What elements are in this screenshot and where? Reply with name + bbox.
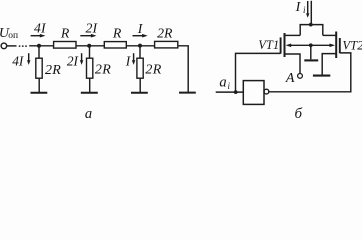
label R1 bbox=[60, 26, 70, 41]
svg-text:2R: 2R bbox=[157, 26, 173, 41]
current arrow 2I (top) bbox=[86, 21, 99, 36]
label Uop (reference voltage) bbox=[0, 26, 18, 41]
caption a bbox=[85, 106, 92, 122]
svg-text:a: a bbox=[219, 75, 226, 91]
wire to right corner bbox=[178, 46, 188, 93]
junction a_i bbox=[234, 90, 238, 94]
inverter (NOT gate) box bbox=[243, 81, 264, 105]
svg-text:A: A bbox=[285, 71, 295, 86]
substrate wire down bbox=[310, 45, 312, 59]
VT1 gate bar bbox=[280, 37, 282, 53]
VT1 source stub down to node A bbox=[285, 54, 301, 74]
svg-text:VT2: VT2 bbox=[343, 39, 362, 53]
svg-text:I: I bbox=[137, 21, 144, 36]
ground (branch 1) bbox=[31, 92, 48, 94]
label 2R (branch 3) bbox=[145, 63, 161, 78]
input terminal circle bbox=[1, 43, 7, 49]
transistor VT2 bbox=[343, 39, 362, 53]
ground (substrate) bbox=[304, 59, 318, 61]
svg-text:оп: оп bbox=[8, 31, 18, 41]
VT2 source stub to ground bbox=[322, 54, 336, 75]
current arrow Ii (down) bbox=[307, 1, 309, 14]
VT1 channel bbox=[284, 33, 286, 57]
wire node1-node2 bbox=[76, 45, 104, 47]
resistor R2 (horizontal) bbox=[104, 42, 126, 48]
VT1 gate wire to input bbox=[236, 53, 281, 92]
VT1 drain stub bbox=[285, 34, 301, 36]
svg-text:R: R bbox=[112, 26, 122, 41]
current arrow I (branch 3, down) bbox=[125, 53, 131, 68]
svg-text:R: R bbox=[60, 26, 70, 41]
label 2R (branch 2) bbox=[95, 63, 111, 78]
svg-text:2R: 2R bbox=[45, 63, 61, 78]
wire to node 1 bbox=[29, 45, 53, 47]
svg-text:4I: 4I bbox=[12, 53, 24, 68]
svg-text:I: I bbox=[125, 53, 131, 68]
ground (right end) bbox=[179, 92, 196, 94]
svg-text:2R: 2R bbox=[95, 63, 111, 78]
resistor 2R (branch 2, vertical) bbox=[87, 58, 93, 78]
label 2R (branch 1) bbox=[45, 63, 61, 78]
wire a_i input bbox=[216, 91, 244, 93]
svg-text:2R: 2R bbox=[145, 63, 161, 78]
inverter output bubble bbox=[264, 89, 269, 94]
node A terminal circle bbox=[298, 74, 303, 79]
wire to ground (branch 1) bbox=[38, 78, 40, 92]
resistor R1 (horizontal) bbox=[54, 42, 76, 49]
current arrow 2I (branch 2, down) bbox=[67, 53, 79, 68]
svg-text:б: б bbox=[295, 106, 303, 121]
label A bbox=[285, 71, 295, 86]
ground (VT2 source) bbox=[313, 75, 330, 77]
ground (branch 3) bbox=[131, 92, 148, 94]
label 2R (top right) bbox=[157, 26, 173, 41]
wire to ground (branch 3) bbox=[139, 78, 141, 92]
transistor VT1 bbox=[258, 38, 279, 52]
wire inverter output to VT2 gate bbox=[269, 53, 351, 92]
node 1 junction bbox=[37, 44, 41, 48]
svg-text:4I: 4I bbox=[34, 21, 47, 36]
dots (omitted network) bbox=[19, 45, 27, 47]
caption b bbox=[295, 106, 303, 122]
resistor 2R (branch 3, vertical) bbox=[137, 58, 143, 78]
label Ii (current source) bbox=[295, 0, 306, 15]
wire node2-node3 bbox=[126, 45, 154, 47]
svg-text:i: i bbox=[228, 81, 231, 91]
svg-text:I: I bbox=[295, 0, 302, 15]
svg-text:i: i bbox=[303, 5, 306, 15]
svg-text:а: а bbox=[85, 106, 92, 121]
current arrow I (top) bbox=[137, 21, 144, 36]
branch 3: wire down from node 3 bbox=[139, 46, 141, 59]
branch 2: wire down from node 2 bbox=[89, 46, 91, 58]
top rail connecting drains bbox=[300, 25, 323, 36]
svg-text:VT1: VT1 bbox=[258, 38, 279, 52]
VT2 substrate stub with arrow bbox=[311, 44, 331, 46]
ground (branch 2) bbox=[81, 92, 98, 94]
current arrow 4I (branch 1, down) bbox=[12, 53, 24, 68]
node 2 junction bbox=[87, 44, 91, 48]
resistor 2R terminating (horizontal) bbox=[155, 41, 178, 48]
junction on top rail bbox=[309, 23, 313, 27]
svg-text:2I: 2I bbox=[67, 53, 79, 68]
wire from terminal bbox=[7, 45, 17, 47]
VT1 substrate stub with arrow bbox=[290, 44, 311, 46]
label a_i bbox=[219, 75, 230, 91]
current arrow 4I (top) bbox=[34, 21, 47, 36]
svg-text:2I: 2I bbox=[86, 21, 99, 36]
substrate junction bbox=[309, 43, 313, 47]
wire to ground (branch 2) bbox=[89, 78, 91, 92]
wire Ii input bbox=[310, 1, 312, 25]
resistor 2R (branch 1, vertical) bbox=[36, 58, 42, 78]
VT2 drain stub bbox=[323, 34, 336, 36]
node 3 junction bbox=[138, 44, 142, 48]
branch 1: wire down from node 1 bbox=[38, 46, 40, 58]
label R2 bbox=[112, 26, 122, 41]
VT2 gate bar bbox=[339, 38, 341, 53]
VT2 channel bbox=[335, 32, 337, 59]
